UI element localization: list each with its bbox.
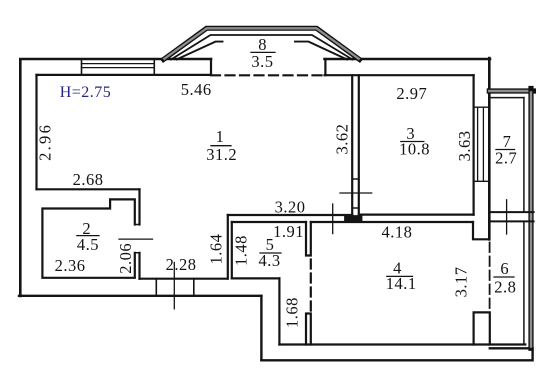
top-right wall rect top <box>325 58 491 61</box>
room4 top wall <box>311 221 473 223</box>
room 4 right stub <box>474 312 490 344</box>
svg-text:2.96: 2.96 <box>35 123 54 161</box>
junction fill block <box>348 215 360 222</box>
left wall pier right edge (bay) <box>210 59 212 75</box>
svg-text:2.06: 2.06 <box>116 243 135 274</box>
svg-text:3.63: 3.63 <box>455 130 474 161</box>
dimension tick 2.06 <box>119 238 153 240</box>
hall right wall band outer <box>227 215 229 279</box>
entrance door jambs in bottom wall <box>156 279 194 296</box>
window W1 glazing lines <box>82 63 155 65</box>
bay window outer band <box>164 28 360 59</box>
room5 bottom wall <box>232 277 280 279</box>
dimension tick balconies <box>506 200 508 234</box>
svg-text:1.68: 1.68 <box>282 297 301 328</box>
hall right wall band inner / room5 left <box>231 222 233 278</box>
room 4 right step top <box>473 222 489 239</box>
wall joint tick corridor <box>347 215 349 222</box>
bay window outer band gray core <box>164 28 358 59</box>
room3 bottom wall <box>359 214 474 216</box>
balcony 6 inner line <box>523 221 525 344</box>
outer wall left and top <box>20 59 211 296</box>
svg-text:4.18: 4.18 <box>381 223 412 242</box>
svg-text:1.48: 1.48 <box>232 235 251 266</box>
bay window inner glazing <box>177 42 348 60</box>
balcony parapet inner line top <box>489 97 524 99</box>
svg-text:6: 6 <box>500 259 509 278</box>
dashed opening room5-room4 <box>310 260 312 313</box>
window W2 room3/balcony7 caps <box>474 107 490 181</box>
dimension tick 2.28 <box>173 263 175 309</box>
balcony divider 7/6 <box>490 212 534 221</box>
svg-text:1: 1 <box>216 127 225 146</box>
svg-text:5.46: 5.46 <box>181 80 212 99</box>
svg-text:2.8: 2.8 <box>494 277 516 296</box>
top-right wall rect bottom / room3 top <box>325 74 474 76</box>
svg-text:3.17: 3.17 <box>451 266 470 297</box>
svg-text:3.62: 3.62 <box>333 124 352 155</box>
svg-text:2.28: 2.28 <box>166 255 197 274</box>
room 2 outline <box>42 199 134 277</box>
room 1 left wall inner <box>35 75 37 189</box>
dimension tick 3.20 <box>332 204 334 234</box>
balcony parapet inner line right <box>523 98 525 213</box>
svg-text:2.68: 2.68 <box>73 170 104 189</box>
room 2 door jambs <box>135 225 140 253</box>
svg-text:14.1: 14.1 <box>386 274 417 293</box>
svg-text:2.7: 2.7 <box>495 149 517 168</box>
svg-text:1.64: 1.64 <box>206 234 225 265</box>
wall band between rooms 1 and 3 <box>352 75 359 215</box>
svg-text:10.8: 10.8 <box>399 140 430 159</box>
window W1 in top wall: end caps <box>81 59 83 75</box>
svg-text:31.2: 31.2 <box>206 145 237 164</box>
dashed opening to bay 8 <box>211 74 325 76</box>
lower corridor left wall <box>278 278 280 344</box>
wall band room5/room4 <box>306 222 311 256</box>
outer wall bottom-left <box>19 295 261 297</box>
hall left wall <box>138 189 140 278</box>
svg-text:2.97: 2.97 <box>396 84 427 103</box>
svg-text:3.20: 3.20 <box>275 198 306 217</box>
outer wall step down <box>260 296 262 360</box>
outer wall right <box>488 58 491 239</box>
svg-text:4.3: 4.3 <box>258 251 280 270</box>
top wall inner line room1 top <box>37 74 212 76</box>
svg-text:3.5: 3.5 <box>251 52 273 71</box>
balcony parapet outer band top <box>489 88 533 93</box>
room 4 bottom wall <box>279 343 525 345</box>
outer wall bottom <box>261 348 532 360</box>
svg-text:2.36: 2.36 <box>55 256 86 275</box>
window W2 glazing <box>478 107 484 181</box>
svg-text:1.91: 1.91 <box>273 222 304 241</box>
svg-text:H=2.75: H=2.75 <box>60 84 112 101</box>
svg-text:4.5: 4.5 <box>77 235 99 254</box>
fraction underlines <box>211 145 231 147</box>
top-right wall rect left edge <box>324 59 326 75</box>
hall bottom wall <box>140 278 228 280</box>
room5 top wall <box>232 221 306 223</box>
dashed opening room4-balcony6 <box>489 243 491 312</box>
balcony parapet outer band right <box>528 89 533 349</box>
wall joint connectors <box>352 179 359 208</box>
dimension tick 3.62/3.63 <box>340 192 372 194</box>
room 1 bottom wall <box>37 188 140 190</box>
room 3 right wall <box>473 75 475 214</box>
corridor top wall upper line <box>228 214 352 216</box>
bay window middle glazing <box>171 35 353 60</box>
wall stub below opening <box>306 314 311 345</box>
